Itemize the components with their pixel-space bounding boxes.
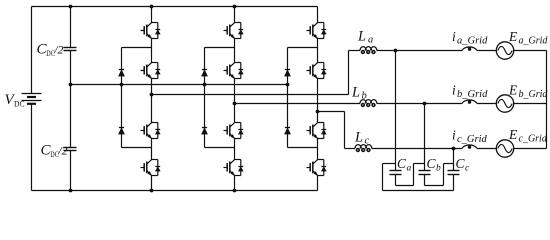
svg-text:a: a bbox=[407, 164, 412, 174]
svg-text:c: c bbox=[365, 136, 370, 147]
svg-text:/2: /2 bbox=[57, 144, 67, 158]
svg-text:i: i bbox=[452, 83, 456, 98]
svg-text:L: L bbox=[357, 29, 366, 45]
svg-text:a_Grid: a_Grid bbox=[519, 36, 549, 47]
svg-text:c_Grid: c_Grid bbox=[519, 134, 548, 145]
svg-text:E: E bbox=[508, 83, 518, 98]
svg-text:C: C bbox=[397, 156, 407, 171]
svg-text:i: i bbox=[452, 128, 456, 143]
svg-text:C: C bbox=[456, 156, 466, 171]
svg-text:b_Grid: b_Grid bbox=[457, 89, 488, 100]
svg-text:b: b bbox=[436, 164, 441, 174]
svg-text:L: L bbox=[351, 85, 360, 101]
svg-text:b_Grid: b_Grid bbox=[519, 89, 549, 100]
svg-text:c_Grid: c_Grid bbox=[457, 134, 487, 145]
svg-text:L: L bbox=[354, 130, 363, 146]
svg-text:DC: DC bbox=[14, 99, 25, 109]
svg-text:a_Grid: a_Grid bbox=[457, 36, 488, 47]
svg-text:E: E bbox=[508, 29, 518, 44]
svg-text:E: E bbox=[508, 127, 518, 142]
svg-text:C: C bbox=[427, 156, 437, 171]
svg-text:a: a bbox=[368, 35, 373, 46]
svg-text:b: b bbox=[362, 91, 367, 102]
svg-text:i: i bbox=[452, 29, 456, 44]
svg-text:/2: /2 bbox=[53, 43, 63, 57]
